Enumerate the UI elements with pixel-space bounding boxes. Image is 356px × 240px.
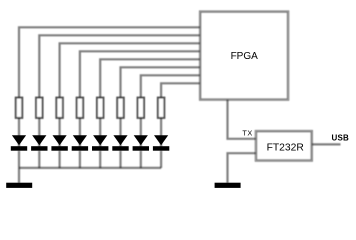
wire R5 to D5	[99, 118, 101, 150]
wire net3 FPGA to R3	[60, 43, 200, 97]
resistor R1	[16, 98, 23, 118]
wire net7 FPGA to R7	[141, 75, 200, 97]
LED D7	[133, 135, 149, 150]
resistor R7	[138, 98, 145, 118]
wire FPGA TX to FT232R	[228, 100, 257, 139]
resistor R8	[158, 98, 165, 118]
LED D8	[153, 135, 169, 150]
LED D6	[112, 135, 128, 150]
resistor R3	[56, 98, 63, 118]
wire USB output	[312, 143, 341, 145]
svg-text:TX: TX	[242, 129, 252, 138]
svg-text:FT232R: FT232R	[267, 143, 304, 154]
wire net5 FPGA to R5	[100, 59, 200, 97]
wire R3 to D3	[58, 118, 60, 150]
wire D4 to cathode bus	[79, 151, 81, 168]
wire net6 FPGA to R6	[121, 67, 201, 97]
LED D5	[92, 135, 108, 150]
LED D3	[51, 135, 67, 150]
resistor R4	[77, 98, 84, 118]
FT232R block U2	[256, 131, 312, 160]
wire D5 to cathode bus	[99, 151, 101, 168]
wire FT232R ground pin	[228, 153, 257, 183]
wire D7 to cathode bus	[140, 151, 142, 168]
wire R8 to D8	[160, 118, 162, 150]
ground (left)	[6, 183, 32, 188]
svg-text:FPGA: FPGA	[231, 51, 259, 62]
resistor R6	[117, 98, 124, 118]
wire bus to left ground	[18, 168, 20, 183]
cathode bus wire	[19, 167, 161, 169]
resistor R5	[97, 98, 104, 118]
wire R6 to D6	[119, 118, 121, 150]
ground (right)	[215, 183, 241, 188]
LED D2	[31, 135, 47, 150]
wire R4 to D4	[79, 118, 81, 150]
wire net8 FPGA to R8	[161, 83, 200, 97]
wire R7 to D7	[140, 118, 142, 150]
wire R2 to D2	[38, 118, 40, 150]
wire D2 to cathode bus	[38, 151, 40, 168]
FPGA block U1	[200, 12, 288, 100]
wire D8 to cathode bus	[160, 151, 162, 168]
wire net4 FPGA to R4	[80, 51, 200, 97]
svg-text:USB: USB	[332, 133, 350, 142]
wire D6 to cathode bus	[119, 151, 121, 168]
wire D1 to cathode bus	[18, 151, 20, 168]
resistor R2	[36, 98, 43, 118]
LED D4	[72, 135, 88, 150]
wire net2 FPGA to R2	[39, 35, 200, 97]
LED D1	[11, 135, 27, 150]
wire R1 to D1	[18, 118, 20, 150]
wire net1 FPGA to R1	[19, 27, 200, 97]
wire D3 to cathode bus	[58, 151, 60, 168]
